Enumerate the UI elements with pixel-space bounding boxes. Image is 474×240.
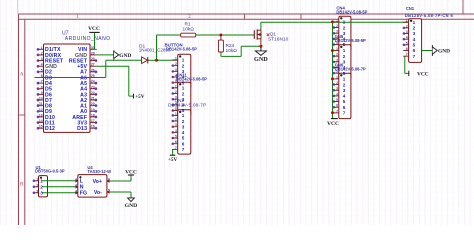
svg-text:3: 3 bbox=[41, 57, 43, 61]
svg-text:1: 1 bbox=[182, 58, 185, 63]
svg-text:3: 3 bbox=[175, 123, 177, 127]
svg-text:3: 3 bbox=[36, 189, 38, 193]
svg-text:2: 2 bbox=[40, 185, 43, 190]
svg-text:1: 1 bbox=[336, 75, 338, 79]
svg-text:1: 1 bbox=[40, 179, 43, 184]
svg-text:6: 6 bbox=[406, 47, 408, 51]
svg-text:ARDUINO_NANO: ARDUINO_NANO bbox=[65, 36, 111, 42]
svg-text:6: 6 bbox=[336, 104, 338, 108]
svg-text:DB142V-5.08-5P: DB142V-5.08-5P bbox=[336, 10, 367, 15]
svg-text:TAS30-12-W: TAS30-12-W bbox=[87, 169, 111, 174]
svg-text:FG: FG bbox=[80, 191, 87, 197]
svg-text:+5V: +5V bbox=[168, 157, 178, 163]
svg-text:3: 3 bbox=[406, 30, 408, 34]
svg-text:2: 2 bbox=[36, 183, 38, 187]
svg-text:2: 2 bbox=[413, 26, 416, 31]
svg-text:7: 7 bbox=[406, 53, 408, 57]
svg-text:3: 3 bbox=[343, 31, 346, 36]
svg-text:4: 4 bbox=[343, 94, 346, 99]
svg-text:1: 1 bbox=[343, 77, 346, 82]
svg-text:13: 13 bbox=[39, 113, 43, 117]
svg-text:21: 21 bbox=[91, 97, 95, 101]
svg-text:+5V: +5V bbox=[135, 94, 145, 100]
svg-text:2: 2 bbox=[336, 81, 338, 85]
svg-text:29: 29 bbox=[91, 51, 95, 55]
svg-text:DB142V-5.08-5P: DB142V-5.08-5P bbox=[176, 76, 207, 81]
svg-text:6: 6 bbox=[343, 105, 346, 110]
svg-text:VCC: VCC bbox=[327, 121, 339, 127]
svg-text:2: 2 bbox=[175, 90, 177, 94]
svg-text:2: 2 bbox=[336, 53, 338, 57]
svg-text:D12: D12 bbox=[45, 126, 55, 132]
svg-text:17: 17 bbox=[91, 119, 95, 123]
svg-text:1: 1 bbox=[182, 86, 185, 91]
svg-text:11: 11 bbox=[39, 102, 43, 106]
svg-text:VCC: VCC bbox=[88, 26, 100, 32]
svg-text:14: 14 bbox=[39, 119, 43, 123]
svg-text:12: 12 bbox=[39, 108, 43, 112]
svg-text:DB142V-5.08-5P: DB142V-5.08-5P bbox=[166, 47, 197, 52]
svg-text:6: 6 bbox=[182, 141, 185, 146]
svg-text:22: 22 bbox=[91, 91, 95, 95]
svg-text:5: 5 bbox=[182, 136, 185, 141]
svg-text:2: 2 bbox=[343, 54, 346, 59]
svg-text:2: 2 bbox=[182, 63, 185, 68]
svg-text:5: 5 bbox=[108, 189, 110, 193]
svg-text:20: 20 bbox=[91, 102, 95, 106]
svg-text:10kΩ: 10kΩ bbox=[226, 48, 238, 54]
svg-text:5: 5 bbox=[406, 41, 408, 45]
svg-text:4: 4 bbox=[413, 37, 416, 42]
svg-text:3: 3 bbox=[343, 88, 346, 93]
svg-text:5: 5 bbox=[343, 42, 346, 47]
svg-text:5: 5 bbox=[175, 135, 177, 139]
svg-text:5: 5 bbox=[343, 99, 346, 104]
svg-text:1: 1 bbox=[182, 113, 185, 118]
svg-text:15: 15 bbox=[39, 125, 43, 129]
svg-text:2: 2 bbox=[343, 25, 346, 30]
svg-text:10kΩ: 10kΩ bbox=[183, 26, 195, 32]
svg-text:GND: GND bbox=[254, 56, 268, 63]
svg-text:Vo-: Vo- bbox=[94, 190, 102, 196]
svg-text:DB128V-5.08-7P-CN 6: DB128V-5.08-7P-CN 6 bbox=[405, 13, 454, 18]
svg-text:9: 9 bbox=[108, 178, 110, 182]
svg-text:7: 7 bbox=[182, 147, 185, 152]
svg-text:1: 1 bbox=[413, 20, 416, 25]
svg-text:9: 9 bbox=[41, 91, 43, 95]
svg-text:23: 23 bbox=[91, 85, 95, 89]
svg-text:10: 10 bbox=[39, 97, 43, 101]
svg-text:6: 6 bbox=[413, 48, 416, 53]
svg-text:3: 3 bbox=[413, 31, 416, 36]
svg-text:2: 2 bbox=[41, 51, 43, 55]
svg-text:27: 27 bbox=[91, 63, 95, 67]
svg-text:3: 3 bbox=[336, 87, 338, 91]
svg-text:Vo+: Vo+ bbox=[93, 179, 102, 185]
svg-text:DB142V-5.08-7P: DB142V-5.08-7P bbox=[168, 103, 207, 109]
svg-text:24: 24 bbox=[91, 80, 95, 84]
svg-text:4: 4 bbox=[336, 92, 338, 96]
svg-text:7: 7 bbox=[175, 146, 177, 150]
svg-text:3: 3 bbox=[343, 60, 346, 65]
svg-text:2: 2 bbox=[336, 24, 338, 28]
svg-text:7: 7 bbox=[41, 80, 43, 84]
svg-text:2: 2 bbox=[175, 118, 177, 122]
svg-text:1: 1 bbox=[336, 47, 338, 51]
svg-text:A: A bbox=[20, 73, 24, 78]
svg-text:CN1: CN1 bbox=[406, 6, 415, 11]
svg-text:5: 5 bbox=[336, 98, 338, 102]
svg-text:3: 3 bbox=[182, 124, 185, 129]
svg-text:ST16N10: ST16N10 bbox=[268, 37, 289, 43]
svg-text:1: 1 bbox=[406, 19, 408, 23]
svg-text:DB142V-5.08-7P: DB142V-5.08-7P bbox=[335, 67, 366, 72]
svg-text:1: 1 bbox=[175, 112, 177, 116]
svg-text:1: 1 bbox=[343, 48, 346, 53]
svg-text:2: 2 bbox=[182, 119, 185, 124]
svg-text:5: 5 bbox=[343, 71, 346, 76]
svg-text:2: 2 bbox=[182, 91, 185, 96]
svg-text:7: 7 bbox=[336, 109, 338, 113]
svg-text:18: 18 bbox=[91, 113, 95, 117]
svg-text:8: 8 bbox=[41, 85, 43, 89]
svg-text:19: 19 bbox=[91, 108, 95, 112]
svg-text:1: 1 bbox=[175, 57, 177, 61]
svg-text:1: 1 bbox=[343, 20, 346, 25]
svg-text:D13: D13 bbox=[77, 126, 87, 132]
svg-text:4: 4 bbox=[406, 36, 408, 40]
svg-text:VCC: VCC bbox=[417, 72, 429, 78]
svg-text:3: 3 bbox=[40, 191, 43, 196]
svg-text:3: 3 bbox=[175, 68, 177, 72]
svg-text:16: 16 bbox=[91, 125, 95, 129]
svg-text:GND: GND bbox=[438, 49, 450, 55]
svg-text:4: 4 bbox=[41, 63, 43, 67]
svg-text:4: 4 bbox=[182, 130, 185, 135]
svg-text:DB142V-5.08-5P: DB142V-5.08-5P bbox=[335, 38, 366, 43]
svg-text:1: 1 bbox=[36, 177, 38, 181]
svg-text:1: 1 bbox=[175, 84, 177, 88]
svg-text:GND: GND bbox=[119, 53, 131, 59]
svg-text:1: 1 bbox=[336, 18, 338, 22]
svg-text:5: 5 bbox=[413, 43, 416, 48]
svg-text:DBT50G-9.5-3P: DBT50G-9.5-3P bbox=[35, 169, 65, 174]
svg-text:7: 7 bbox=[343, 111, 346, 116]
svg-text:2: 2 bbox=[175, 62, 177, 66]
svg-text:2: 2 bbox=[343, 82, 346, 87]
svg-text:4: 4 bbox=[175, 129, 177, 133]
svg-text:VCC: VCC bbox=[125, 170, 137, 176]
svg-text:28: 28 bbox=[91, 57, 95, 61]
svg-text:GND: GND bbox=[125, 203, 137, 209]
svg-text:1: 1 bbox=[41, 46, 43, 50]
svg-text:5: 5 bbox=[41, 68, 43, 72]
svg-text:2: 2 bbox=[406, 24, 408, 28]
svg-text:6: 6 bbox=[175, 140, 177, 144]
svg-text:7: 7 bbox=[413, 54, 416, 59]
svg-text:26: 26 bbox=[91, 68, 95, 72]
